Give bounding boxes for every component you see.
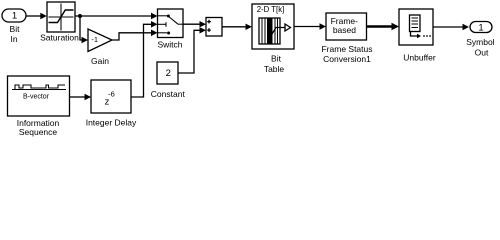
svg-text:Bit: Bit	[271, 54, 282, 64]
svg-text:2-D T[k]: 2-D T[k]	[257, 5, 285, 14]
svg-text:Symbol: Symbol	[466, 37, 494, 47]
wire junction to Gain	[80, 16, 88, 43]
outport Symbol Out	[466, 22, 494, 58]
constant block	[151, 62, 186, 99]
bit table block (direct lookup)	[252, 4, 294, 74]
wire Gain to Switch port3	[112, 30, 158, 41]
svg-text:Bit: Bit	[10, 24, 21, 34]
svg-text:Gain: Gain	[91, 56, 109, 66]
wire Integer Delay to Switch port2	[131, 21, 158, 97]
svg-text:B-vector: B-vector	[23, 94, 50, 101]
svg-text:2: 2	[166, 68, 171, 79]
sum block	[206, 18, 222, 37]
wire Sum to Bit Table	[222, 24, 252, 30]
wire Unbuffer to outport	[433, 24, 469, 30]
wire Switch to Sum port1	[183, 21, 206, 27]
saturation block	[40, 2, 79, 43]
gain block	[88, 29, 112, 66]
wire inport to Saturation	[26, 13, 47, 20]
svg-text:-1: -1	[91, 35, 98, 44]
switch block	[157, 9, 183, 49]
wire Saturation to Switch port1	[75, 13, 158, 20]
frame-based wire FSC to Unbuffer	[367, 23, 400, 31]
svg-text:based: based	[333, 25, 356, 35]
frame status conversion block	[321, 13, 372, 64]
svg-text:Frame Status: Frame Status	[321, 44, 372, 54]
svg-text:Conversion1: Conversion1	[323, 54, 371, 64]
svg-text:Integer Delay: Integer Delay	[86, 117, 137, 127]
wire Constant to Sum port2	[178, 27, 206, 73]
svg-text:Unbuffer: Unbuffer	[403, 52, 436, 62]
svg-text:Switch: Switch	[157, 39, 182, 49]
svg-text:1: 1	[478, 22, 483, 33]
svg-text:Sequence: Sequence	[19, 127, 58, 137]
svg-text:-6: -6	[108, 89, 115, 98]
svg-text:Constant: Constant	[151, 89, 186, 99]
svg-text:1: 1	[12, 11, 17, 22]
wire Bit Table to Frame Status Conversion1	[294, 23, 326, 29]
information sequence source block	[8, 76, 70, 137]
junction node	[78, 14, 82, 18]
svg-text:Table: Table	[264, 64, 285, 74]
svg-text:Out: Out	[475, 47, 489, 57]
svg-text:Saturation: Saturation	[40, 33, 79, 43]
wire source to Integer Delay	[70, 94, 92, 101]
unbuffer block	[399, 9, 436, 62]
integer delay block	[86, 80, 137, 127]
svg-text:In: In	[10, 34, 17, 44]
inport Bit In	[2, 9, 26, 44]
